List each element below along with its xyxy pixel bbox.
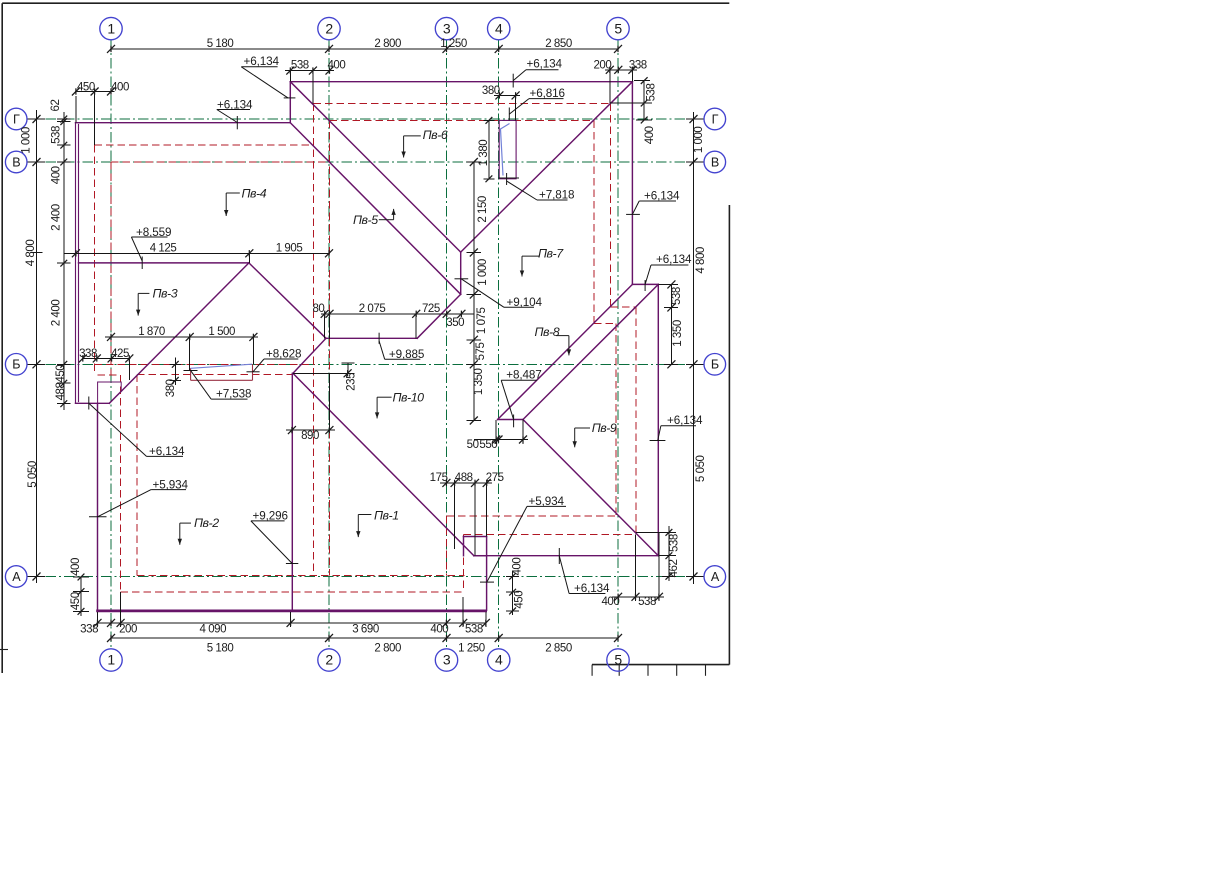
svg-text:1 380: 1 380 [478, 140, 490, 167]
svg-text:400: 400 [70, 558, 82, 576]
svg-text:2 850: 2 850 [545, 38, 572, 50]
svg-text:338: 338 [629, 59, 647, 71]
svg-text:538: 538 [671, 287, 683, 305]
svg-text:175: 175 [430, 472, 448, 484]
svg-text:488: 488 [55, 383, 67, 401]
svg-text:488: 488 [455, 472, 473, 484]
svg-text:+6,134: +6,134 [217, 98, 253, 111]
svg-text:5 050: 5 050 [27, 461, 39, 488]
svg-text:В: В [12, 155, 20, 169]
svg-text:4 800: 4 800 [25, 240, 37, 267]
svg-text:Б: Б [711, 358, 719, 372]
svg-text:575: 575 [475, 343, 487, 361]
svg-text:+9,104: +9,104 [507, 296, 543, 309]
svg-text:+8,628: +8,628 [266, 348, 301, 361]
svg-text:Пв-10: Пв-10 [393, 391, 425, 405]
svg-text:62: 62 [50, 100, 62, 112]
svg-text:538: 538 [646, 84, 658, 102]
svg-text:275: 275 [486, 472, 504, 484]
svg-text:5 050: 5 050 [695, 455, 707, 482]
svg-text:200: 200 [119, 623, 137, 635]
svg-text:400: 400 [111, 81, 129, 93]
svg-text:Пв-5: Пв-5 [353, 213, 378, 227]
svg-text:Пв-3: Пв-3 [153, 287, 178, 301]
svg-text:Пв-4: Пв-4 [242, 187, 267, 201]
svg-text:1 905: 1 905 [276, 243, 303, 255]
svg-text:235: 235 [346, 373, 358, 391]
svg-text:+7,538: +7,538 [216, 387, 251, 400]
svg-text:200: 200 [593, 59, 611, 71]
svg-text:4: 4 [495, 652, 503, 668]
svg-text:4: 4 [495, 20, 503, 36]
svg-text:338: 338 [80, 623, 98, 635]
svg-text:+6,134: +6,134 [149, 445, 185, 458]
svg-text:1 250: 1 250 [458, 643, 485, 655]
svg-text:5 180: 5 180 [207, 38, 234, 50]
svg-text:Г: Г [13, 112, 20, 126]
svg-text:462: 462 [668, 560, 680, 578]
svg-text:Пв-9: Пв-9 [592, 421, 617, 435]
svg-text:5 180: 5 180 [207, 643, 234, 655]
svg-text:450: 450 [514, 591, 526, 609]
svg-text:3 690: 3 690 [352, 623, 379, 635]
svg-text:1 870: 1 870 [138, 326, 165, 338]
svg-text:1 000: 1 000 [477, 259, 489, 286]
svg-text:2: 2 [325, 20, 333, 36]
svg-text:2 400: 2 400 [51, 300, 63, 327]
svg-text:Пв-6: Пв-6 [423, 128, 448, 142]
svg-text:538: 538 [50, 126, 62, 144]
svg-text:400: 400 [644, 126, 656, 144]
svg-text:2 150: 2 150 [477, 196, 489, 223]
svg-text:450: 450 [70, 592, 82, 610]
svg-text:+5,934: +5,934 [153, 478, 189, 491]
svg-text:+7,818: +7,818 [539, 189, 574, 202]
svg-text:400: 400 [327, 59, 345, 71]
svg-text:2 850: 2 850 [545, 643, 572, 655]
svg-text:2: 2 [325, 652, 333, 668]
svg-text:Пв-2: Пв-2 [194, 516, 219, 530]
svg-text:338: 338 [79, 348, 97, 360]
svg-text:+9,885: +9,885 [389, 348, 425, 361]
svg-text:1: 1 [107, 652, 115, 668]
svg-text:50: 50 [467, 439, 479, 451]
svg-text:725: 725 [422, 303, 440, 315]
svg-text:Пв-8: Пв-8 [535, 325, 560, 339]
svg-text:400: 400 [601, 596, 619, 608]
svg-text:+6,816: +6,816 [530, 87, 565, 100]
svg-text:1 500: 1 500 [208, 326, 235, 338]
svg-text:+6,134: +6,134 [574, 582, 610, 595]
svg-text:1 000: 1 000 [693, 127, 705, 154]
svg-text:Г: Г [712, 112, 719, 126]
svg-text:350: 350 [446, 317, 464, 329]
svg-text:3: 3 [443, 652, 451, 668]
svg-text:1 075: 1 075 [476, 307, 488, 334]
svg-text:538: 538 [291, 59, 309, 71]
svg-text:А: А [12, 570, 21, 584]
svg-text:2 800: 2 800 [374, 38, 401, 50]
svg-text:+6,134: +6,134 [527, 58, 563, 71]
svg-text:+6,134: +6,134 [667, 414, 703, 427]
svg-text:400: 400 [430, 623, 448, 635]
svg-text:538: 538 [638, 596, 656, 608]
svg-text:538: 538 [465, 623, 483, 635]
svg-text:+9,296: +9,296 [253, 510, 288, 523]
svg-text:5: 5 [614, 20, 622, 36]
svg-text:80: 80 [312, 303, 324, 315]
svg-text:400: 400 [512, 558, 524, 576]
svg-text:2 800: 2 800 [374, 643, 401, 655]
svg-text:400: 400 [51, 166, 63, 184]
svg-text:4 125: 4 125 [150, 243, 177, 255]
svg-text:550: 550 [479, 439, 497, 451]
svg-text:Пв-7: Пв-7 [538, 247, 564, 261]
svg-text:4 090: 4 090 [200, 623, 227, 635]
svg-text:А: А [711, 570, 720, 584]
svg-text:5: 5 [614, 652, 622, 668]
svg-text:+6,134: +6,134 [656, 253, 692, 266]
svg-text:2 400: 2 400 [51, 204, 63, 231]
svg-text:450: 450 [55, 365, 67, 383]
svg-text:+8,559: +8,559 [136, 226, 171, 239]
svg-text:425: 425 [111, 348, 129, 360]
svg-text:1 350: 1 350 [473, 368, 485, 395]
svg-text:4 800: 4 800 [695, 247, 707, 274]
svg-text:В: В [711, 155, 719, 169]
svg-text:Б: Б [12, 358, 20, 372]
svg-text:1: 1 [107, 20, 115, 36]
svg-text:450: 450 [77, 81, 95, 93]
svg-text:1 350: 1 350 [672, 320, 684, 347]
svg-text:3: 3 [443, 20, 451, 36]
svg-text:380: 380 [482, 85, 500, 97]
svg-text:890: 890 [301, 430, 319, 442]
svg-text:1 250: 1 250 [440, 38, 467, 50]
svg-text:+6,134: +6,134 [244, 55, 280, 68]
svg-text:538: 538 [668, 534, 680, 552]
svg-text:2 075: 2 075 [359, 303, 386, 315]
svg-text:380: 380 [165, 379, 177, 397]
svg-text:+6,134: +6,134 [644, 189, 680, 202]
svg-text:+8,487: +8,487 [506, 369, 541, 382]
svg-text:1 000: 1 000 [20, 127, 32, 154]
svg-text:+5,934: +5,934 [529, 495, 565, 508]
svg-text:Пв-1: Пв-1 [374, 509, 399, 523]
